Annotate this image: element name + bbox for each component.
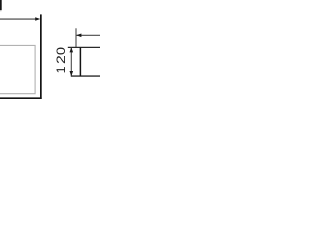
svg-text:2: 2 xyxy=(54,55,68,64)
svg-text:1: 1 xyxy=(54,66,68,73)
svg-text:0: 0 xyxy=(54,47,68,56)
